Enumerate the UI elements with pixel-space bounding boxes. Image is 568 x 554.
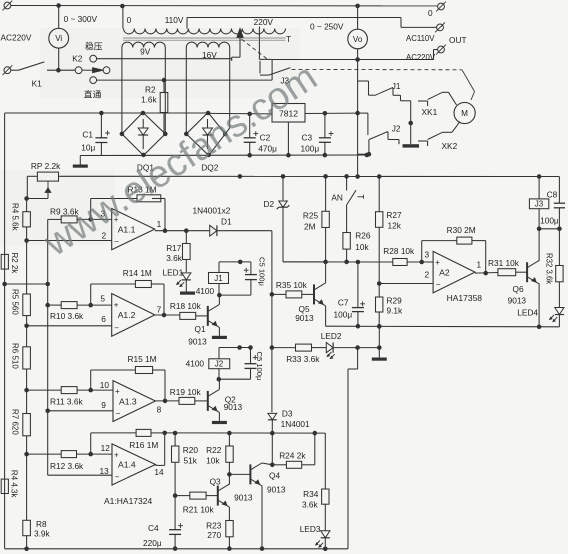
node A1.1 out [163, 228, 168, 233]
svg-text:3.6k: 3.6k [302, 500, 319, 510]
wire AC220V out [272, 59, 433, 61]
svg-text:R26: R26 [355, 231, 371, 241]
svg-text:2: 2 [425, 270, 430, 280]
resistor R7 620 [23, 414, 31, 436]
resistor R4 5.6k [23, 212, 31, 227]
node tap3 [24, 388, 29, 393]
wire C4 chain [174, 496, 176, 530]
resistor R21 10k [190, 492, 206, 499]
wire A1.4 fb riser [90, 433, 92, 454]
svg-text:R29: R29 [387, 295, 403, 305]
wire Q1 emitter gnd [218, 327, 220, 335]
resistor R19 10k [179, 397, 195, 404]
wire J2 contact feed [358, 112, 368, 114]
transistor Q2 [207, 391, 209, 411]
node R22 top [227, 431, 232, 436]
svg-text:220μ: 220μ [143, 538, 162, 548]
wire C5 bottom [219, 294, 251, 296]
svg-text:1N4001x2: 1N4001x2 [193, 206, 231, 216]
node A1.3 out [163, 399, 168, 404]
svg-text:R4 4.3k: R4 4.3k [10, 470, 19, 499]
node A2 + [419, 260, 424, 265]
svg-text:270: 270 [207, 530, 221, 540]
node left-bus link [2, 282, 7, 287]
wire Vo top [357, 6, 359, 29]
wire A2 feedback [421, 241, 423, 262]
svg-text:A1.3: A1.3 [119, 396, 137, 406]
wire 16V right leg [229, 48, 231, 129]
wire sample bus [47, 219, 49, 475]
resistor R35 10k [286, 291, 302, 298]
node DQ2 top [206, 111, 211, 116]
svg-text:K2: K2 [72, 54, 83, 64]
capacitor C7 100u [357, 262, 359, 308]
wire D1 out [217, 230, 272, 232]
svg-text:K1: K1 [32, 78, 43, 88]
svg-text:1: 1 [157, 219, 162, 229]
resistor R29 9.1k [376, 297, 383, 312]
svg-text:R31 10k: R31 10k [488, 258, 520, 268]
svg-text:220V: 220V [254, 17, 274, 27]
node Q1 coll [217, 293, 222, 298]
resistor R8 3.9k [23, 520, 31, 535]
LED3 diode [321, 531, 330, 538]
svg-text:9: 9 [101, 400, 106, 410]
node DQ2 right [223, 132, 228, 137]
node rail J3coil [537, 174, 542, 179]
node bus-R10 [45, 303, 50, 308]
wire R34 chain corner [324, 433, 326, 489]
wire R35 link [272, 293, 286, 295]
wire R32 to LED4 [558, 282, 560, 307]
svg-text:+: + [114, 451, 119, 460]
svg-text:R28 10k: R28 10k [383, 246, 415, 256]
wire Q2 emitter gnd [218, 412, 220, 421]
resistor R17 3.6k [185, 231, 187, 244]
resistor R2 2k (left) [1, 254, 8, 269]
svg-text:R4 5.6k: R4 5.6k [11, 203, 20, 232]
wire gnd stub (control) [378, 348, 380, 358]
wire wenya line [96, 58, 231, 60]
switch K1 [11, 69, 19, 71]
node rail x240 [238, 174, 243, 179]
node C8 bottom [557, 227, 562, 232]
resistor R9 3.6k [61, 216, 77, 223]
capacitor C5 100u (2) [250, 348, 252, 364]
svg-text:C5 100μ: C5 100μ [255, 352, 264, 381]
capacitor C5 100u (1) [250, 262, 252, 275]
node R23 bottom [227, 546, 232, 551]
svg-text:R2: R2 [145, 85, 156, 95]
node contact common [408, 121, 413, 126]
selector switch K2 [75, 67, 82, 74]
wire J2 supply [219, 347, 251, 349]
resistor R27 12k [378, 177, 380, 212]
resistor R2 1.6k [163, 80, 165, 92]
svg-text:470μ: 470μ [258, 144, 277, 154]
node C4 bottom [173, 546, 178, 551]
svg-text:R32 3.6k: R32 3.6k [545, 253, 554, 284]
wire Q3-Q4 base [229, 473, 250, 475]
svg-text:−: − [436, 280, 441, 289]
svg-text:9013: 9013 [188, 337, 207, 347]
mechanical link to motor [462, 70, 475, 92]
wire control gnd rail [326, 325, 560, 328]
svg-text:+: + [115, 387, 120, 396]
wire contact block bottom [368, 140, 370, 155]
M [454, 102, 475, 123]
relay coil J3 [529, 199, 548, 209]
wire Q5 collector [325, 262, 327, 283]
resistor R11 3.6k [61, 387, 77, 394]
wire J2 contact out [388, 139, 399, 141]
dashed link to motor [292, 68, 463, 70]
node DQ1 top [141, 111, 146, 116]
resistor R26 10k [346, 205, 348, 233]
wire LED2 out [333, 347, 379, 349]
op-amp A1.4 [112, 444, 156, 485]
transistor Q5 [313, 284, 315, 304]
C5a [245, 274, 257, 276]
svg-text:R18 10k: R18 10k [170, 301, 202, 311]
node gnd-right [365, 153, 370, 158]
wire rail right corner [558, 177, 560, 204]
wire A1.1 - input [27, 240, 112, 242]
node mute node [323, 260, 328, 265]
op-amp A2 HA17358 [433, 251, 475, 293]
svg-text:D3: D3 [282, 408, 293, 418]
svg-text:J1: J1 [392, 81, 401, 91]
wire Vo bottom [357, 49, 359, 177]
node LED3 bottom [323, 547, 328, 552]
svg-text:A1.1: A1.1 [118, 224, 136, 234]
svg-text:AN: AN [331, 192, 343, 202]
wire Q1 collector [218, 295, 220, 304]
wire LED4 bottom [558, 315, 560, 327]
node C2-bot [247, 153, 252, 158]
diode D1 [210, 225, 217, 236]
node R33 tap [270, 345, 275, 350]
node R29 bottom [377, 324, 382, 329]
svg-text:OUT: OUT [449, 35, 467, 45]
relay coil J2 4100 [218, 348, 220, 359]
node C7 top [356, 260, 361, 265]
regulator 7812 [272, 104, 305, 123]
node C2-top [247, 112, 252, 117]
svg-text:9013: 9013 [295, 313, 314, 323]
svg-text:R10 3.6k: R10 3.6k [50, 311, 84, 321]
svg-text:7: 7 [157, 305, 162, 315]
svg-text:C7: C7 [338, 298, 349, 308]
svg-text:A1:HA17324: A1:HA17324 [104, 496, 152, 506]
bridge rectifier DQ2 [186, 112, 225, 155]
resistor R18 10k [180, 312, 196, 319]
svg-text:3.6k: 3.6k [166, 253, 183, 263]
wire A1.2 output [155, 314, 180, 316]
switch AN [346, 176, 348, 190]
C5b [245, 363, 257, 365]
node Vi-top [56, 3, 61, 8]
variac wiper arrow [237, 28, 243, 37]
node DQ2 left [184, 132, 189, 137]
wire bottom rail [5, 548, 348, 550]
wire Q2 collector [218, 379, 220, 389]
resistor R24 2k [286, 461, 301, 468]
svg-text:LED2: LED2 [321, 331, 342, 341]
svg-text:XK1: XK1 [422, 107, 438, 117]
node rail-J2 [237, 345, 242, 350]
limit common bar [403, 144, 420, 147]
svg-text:1N4001: 1N4001 [281, 419, 310, 429]
limit switch XK2 [418, 140, 428, 142]
wire Q4 emitter [261, 486, 263, 549]
node A1.4 out [162, 431, 167, 436]
node bus-A13 [45, 409, 50, 414]
node LED2-gnd [377, 345, 382, 350]
dashed link wiper to J3 contact [242, 39, 269, 60]
svg-text:1.6k: 1.6k [141, 95, 158, 105]
wire out bus y433 [165, 432, 326, 434]
resistor R25 2M [325, 176, 327, 211]
wire left to bus [5, 283, 48, 285]
wire wiper [239, 38, 241, 58]
wire J1 supply [219, 261, 251, 263]
transformer T primary winding [124, 29, 286, 34]
C3 [319, 137, 331, 139]
limit switch XK1 [418, 100, 428, 102]
svg-text:AC220V: AC220V [1, 33, 32, 43]
relay coil J1 4100 [218, 262, 220, 273]
op-amp A1.3 [113, 381, 155, 422]
node chain bottom [24, 547, 29, 552]
LED2 diode [326, 343, 333, 353]
svg-text:Q1: Q1 [195, 324, 206, 334]
C2 [244, 137, 256, 139]
svg-text:A1.2: A1.2 [118, 310, 136, 320]
wire gnd stub [79, 156, 81, 165]
wire LED3 bottom [324, 538, 326, 549]
wire GND rail (power) [80, 154, 369, 157]
relay contact J2 [369, 132, 388, 140]
op-amp A1.1 [112, 209, 155, 250]
resistor R32 3.6k [556, 266, 563, 282]
wire J1 contact out [393, 94, 401, 96]
transformer secondary 16V [186, 42, 229, 47]
node rail 7812feed [355, 174, 360, 179]
svg-text:16V: 16V [202, 50, 217, 60]
transformer secondary 9V [122, 42, 165, 47]
svg-text:13: 13 [100, 466, 110, 476]
Vo [348, 29, 368, 49]
resistor R28 10k [393, 259, 407, 266]
node K1 [56, 68, 61, 73]
wire Q6 collector [538, 260, 540, 262]
D3 diode [268, 413, 277, 419]
svg-text:R11 3.6k: R11 3.6k [50, 396, 83, 406]
svg-text:LED1: LED1 [163, 268, 184, 278]
node C1-top [99, 111, 104, 116]
wire A1.4 feedback [91, 432, 136, 434]
svg-text:3: 3 [425, 250, 430, 260]
o2 [438, 46, 445, 53]
node rail R27 [377, 174, 382, 179]
wire 9V right leg [164, 48, 166, 134]
node DQ1 right [163, 132, 168, 137]
node C3-bot [323, 153, 328, 158]
wire gnd riser [378, 326, 380, 347]
wire A1.3 + input [27, 389, 62, 391]
node Q6 emitter gnd [537, 325, 542, 330]
node R21 junction [173, 493, 178, 498]
wire LED1 gnd [185, 280, 187, 292]
wire R21 link [175, 495, 190, 497]
wire XK1 to motor [442, 91, 448, 93]
bridge rectifier DQ1 [122, 112, 165, 155]
ground (Q2) [212, 421, 227, 424]
svg-text:R33 3.6k: R33 3.6k [286, 354, 320, 364]
svg-text:0: 0 [428, 8, 433, 18]
resistor R13 1M [137, 195, 161, 202]
svg-text:R2 2k: R2 2k [10, 253, 19, 275]
resistor R12 3.6k [61, 451, 76, 458]
node A2 out [483, 271, 488, 276]
wire wiper down [47, 193, 49, 199]
ground (power) [73, 165, 88, 168]
svg-text:R34: R34 [303, 489, 319, 499]
svg-text:R5 560: R5 560 [11, 289, 20, 315]
svg-text:R8: R8 [36, 519, 47, 529]
svg-text:Q4: Q4 [269, 471, 280, 481]
wire R33 to LED2 [312, 347, 327, 349]
node Q4 emitter bottom [260, 546, 265, 551]
svg-text:51k: 51k [184, 455, 198, 465]
resistor R30 2M [457, 237, 472, 244]
svg-text:D2: D2 [264, 199, 275, 209]
svg-text:LED3: LED3 [300, 524, 321, 534]
C8 [554, 202, 565, 204]
svg-text:+: + [435, 258, 440, 267]
svg-text:R35 10k: R35 10k [276, 280, 308, 290]
resistor R4 4.3k (left) [1, 479, 8, 493]
svg-text:Vi: Vi [55, 34, 62, 43]
wire R19 to Q2 [195, 400, 208, 402]
svg-text:J3: J3 [535, 199, 544, 208]
wire top rail L [11, 5, 438, 7]
node Vo-top [355, 4, 360, 9]
svg-text:2M: 2M [304, 222, 316, 232]
t [4, 2, 11, 9]
svg-text:R24 2k: R24 2k [279, 450, 306, 460]
wire Q5 emitter [325, 306, 327, 326]
node rail AN [344, 174, 349, 179]
svg-text:R15 1M: R15 1M [128, 354, 157, 364]
svg-text:D1: D1 [221, 216, 232, 226]
wire Q3 emitter [228, 507, 230, 521]
svg-text:9013: 9013 [224, 402, 243, 412]
wire A2 output [475, 272, 498, 275]
wire zhitong line [96, 79, 272, 81]
wire A1.2 - input [27, 325, 112, 327]
svg-text:4100: 4100 [196, 286, 215, 296]
resistor R16 1M [136, 429, 151, 436]
svg-text:6: 6 [101, 314, 106, 324]
wire D1 out rail [271, 231, 273, 413]
svg-text:AC220V: AC220V [406, 53, 436, 62]
wire +12V rail [59, 175, 560, 177]
wire Q4 collector [262, 463, 272, 465]
wire contact common riser [410, 101, 412, 144]
wire R28 to A2 [407, 261, 433, 263]
wire A1.2 feedback [91, 283, 136, 285]
ground (control) [372, 358, 387, 361]
svg-text:9013: 9013 [267, 485, 286, 495]
LED4 diode [555, 308, 564, 315]
resistor R5 560 [23, 294, 31, 316]
node DQ1 bottom [141, 153, 146, 158]
wire A1.2 + input [48, 304, 62, 306]
svg-text:9V: 9V [140, 47, 151, 57]
svg-text:J2: J2 [392, 124, 401, 134]
svg-text:12: 12 [101, 443, 111, 453]
resistor R6 510 [23, 347, 31, 369]
wire J3 coil feed [538, 177, 540, 199]
svg-text:A2: A2 [439, 267, 450, 277]
wire XK2 to motor [442, 131, 452, 133]
node R17 tap [184, 228, 189, 233]
svg-text:4100: 4100 [186, 359, 205, 369]
svg-text:10k: 10k [355, 242, 369, 252]
node xfmr-0-tap [120, 4, 125, 9]
svg-text:100μ: 100μ [540, 215, 559, 225]
svg-text:9013: 9013 [508, 295, 527, 305]
svg-text:R12 3.6k: R12 3.6k [50, 461, 84, 471]
Vi [49, 28, 69, 48]
svg-text:稳压: 稳压 [85, 40, 103, 51]
svg-text:Q6: Q6 [513, 284, 524, 294]
C1 [95, 137, 107, 139]
node DQ2 bottom [206, 153, 211, 158]
node 7812-out-junction [355, 111, 360, 116]
transistor Q3 [217, 486, 219, 506]
wire divider chain [26, 199, 28, 212]
node C3-top [323, 111, 328, 116]
svg-text:HA17358: HA17358 [447, 293, 483, 303]
svg-text:AC110V: AC110V [406, 34, 435, 43]
potentiometer RP 2.2k [37, 172, 58, 181]
C4 [169, 529, 181, 531]
node rail R25 [323, 174, 328, 179]
node A1.3 + [88, 388, 93, 393]
wire R21 to Q3 [206, 495, 218, 497]
node C5b top [248, 345, 253, 350]
node Q4 coll [270, 463, 275, 468]
resistor R23 270 [226, 521, 233, 537]
wire Q3 collector [228, 474, 230, 484]
svg-text:8: 8 [157, 404, 162, 414]
svg-text:14: 14 [154, 467, 164, 477]
capacitor C3 100u [324, 113, 326, 138]
wire R24 riser [302, 464, 315, 466]
wire R35 to Q5 [302, 293, 314, 295]
wire A1.3 - input [48, 410, 113, 412]
op-amp A1.2 [112, 294, 155, 337]
wire Q6 emitter [538, 282, 540, 284]
svg-text:1: 1 [477, 260, 482, 270]
svg-text:−: − [114, 237, 119, 246]
svg-text:10k: 10k [206, 455, 220, 465]
svg-text:R16 1M: R16 1M [129, 440, 158, 450]
node A2 - node [377, 281, 382, 286]
